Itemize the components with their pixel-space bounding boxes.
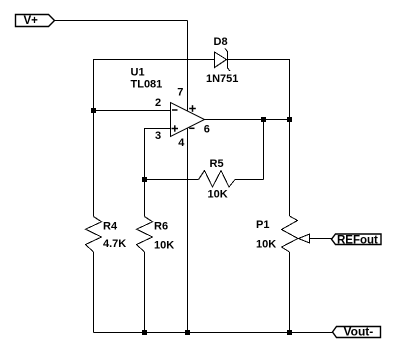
svg-text:TL081: TL081 <box>131 79 163 91</box>
svg-text:1N751: 1N751 <box>206 73 238 85</box>
resistor R5 <box>145 158 264 201</box>
node junction D8/output/P1 <box>287 117 292 122</box>
resistor R6 <box>137 180 175 333</box>
svg-text:3: 3 <box>155 130 161 142</box>
wire V+ down to op-amp pin 7 <box>187 21 189 111</box>
potentiometer P1 <box>256 120 310 333</box>
svg-text:4: 4 <box>178 137 185 149</box>
node junction R6/rail <box>142 330 147 335</box>
node junction R5/output <box>261 117 266 122</box>
wire R5 right up to output <box>263 120 265 180</box>
svg-text:10K: 10K <box>256 239 276 251</box>
svg-text:7: 7 <box>177 87 183 99</box>
svg-text:P1: P1 <box>256 219 269 231</box>
svg-text:U1: U1 <box>131 67 145 79</box>
node junction pin2/R4/D8 <box>91 108 96 113</box>
svg-text:R6: R6 <box>154 220 168 232</box>
svg-text:4.7K: 4.7K <box>103 238 126 250</box>
wire bottom rail <box>94 332 333 334</box>
wire pin 3 <box>145 129 171 180</box>
svg-text:V+: V+ <box>24 15 39 27</box>
svg-text:10K: 10K <box>208 189 228 201</box>
wire D8 cathode to output node <box>228 60 290 120</box>
svg-text:Vout-: Vout- <box>344 325 374 339</box>
op-amp U1 <box>131 67 210 150</box>
port REFout <box>332 234 382 247</box>
wire wiper to REFout <box>310 238 332 240</box>
wire D8 anode net horizontal <box>94 60 215 111</box>
resistor R4 <box>86 111 127 333</box>
wire pin 4 down to bottom rail <box>187 129 189 333</box>
svg-text:6: 6 <box>204 124 210 136</box>
svg-text:R4: R4 <box>103 221 118 233</box>
svg-text:10K: 10K <box>154 240 174 252</box>
diode D8 <box>206 36 238 85</box>
node junction pin3/R5/R6 <box>142 177 147 182</box>
svg-text:2: 2 <box>155 97 161 109</box>
wire V+ horizontal <box>55 20 188 22</box>
port Vout- <box>333 325 381 339</box>
svg-text:D8: D8 <box>214 36 228 48</box>
wire pin 2 <box>94 110 171 112</box>
wire output pin 6 <box>205 119 290 121</box>
node junction pin4/rail <box>185 330 190 335</box>
power flag V+ <box>16 15 55 28</box>
svg-text:REFout: REFout <box>337 235 378 247</box>
svg-text:R5: R5 <box>210 158 224 170</box>
node junction P1/rail <box>287 330 292 335</box>
